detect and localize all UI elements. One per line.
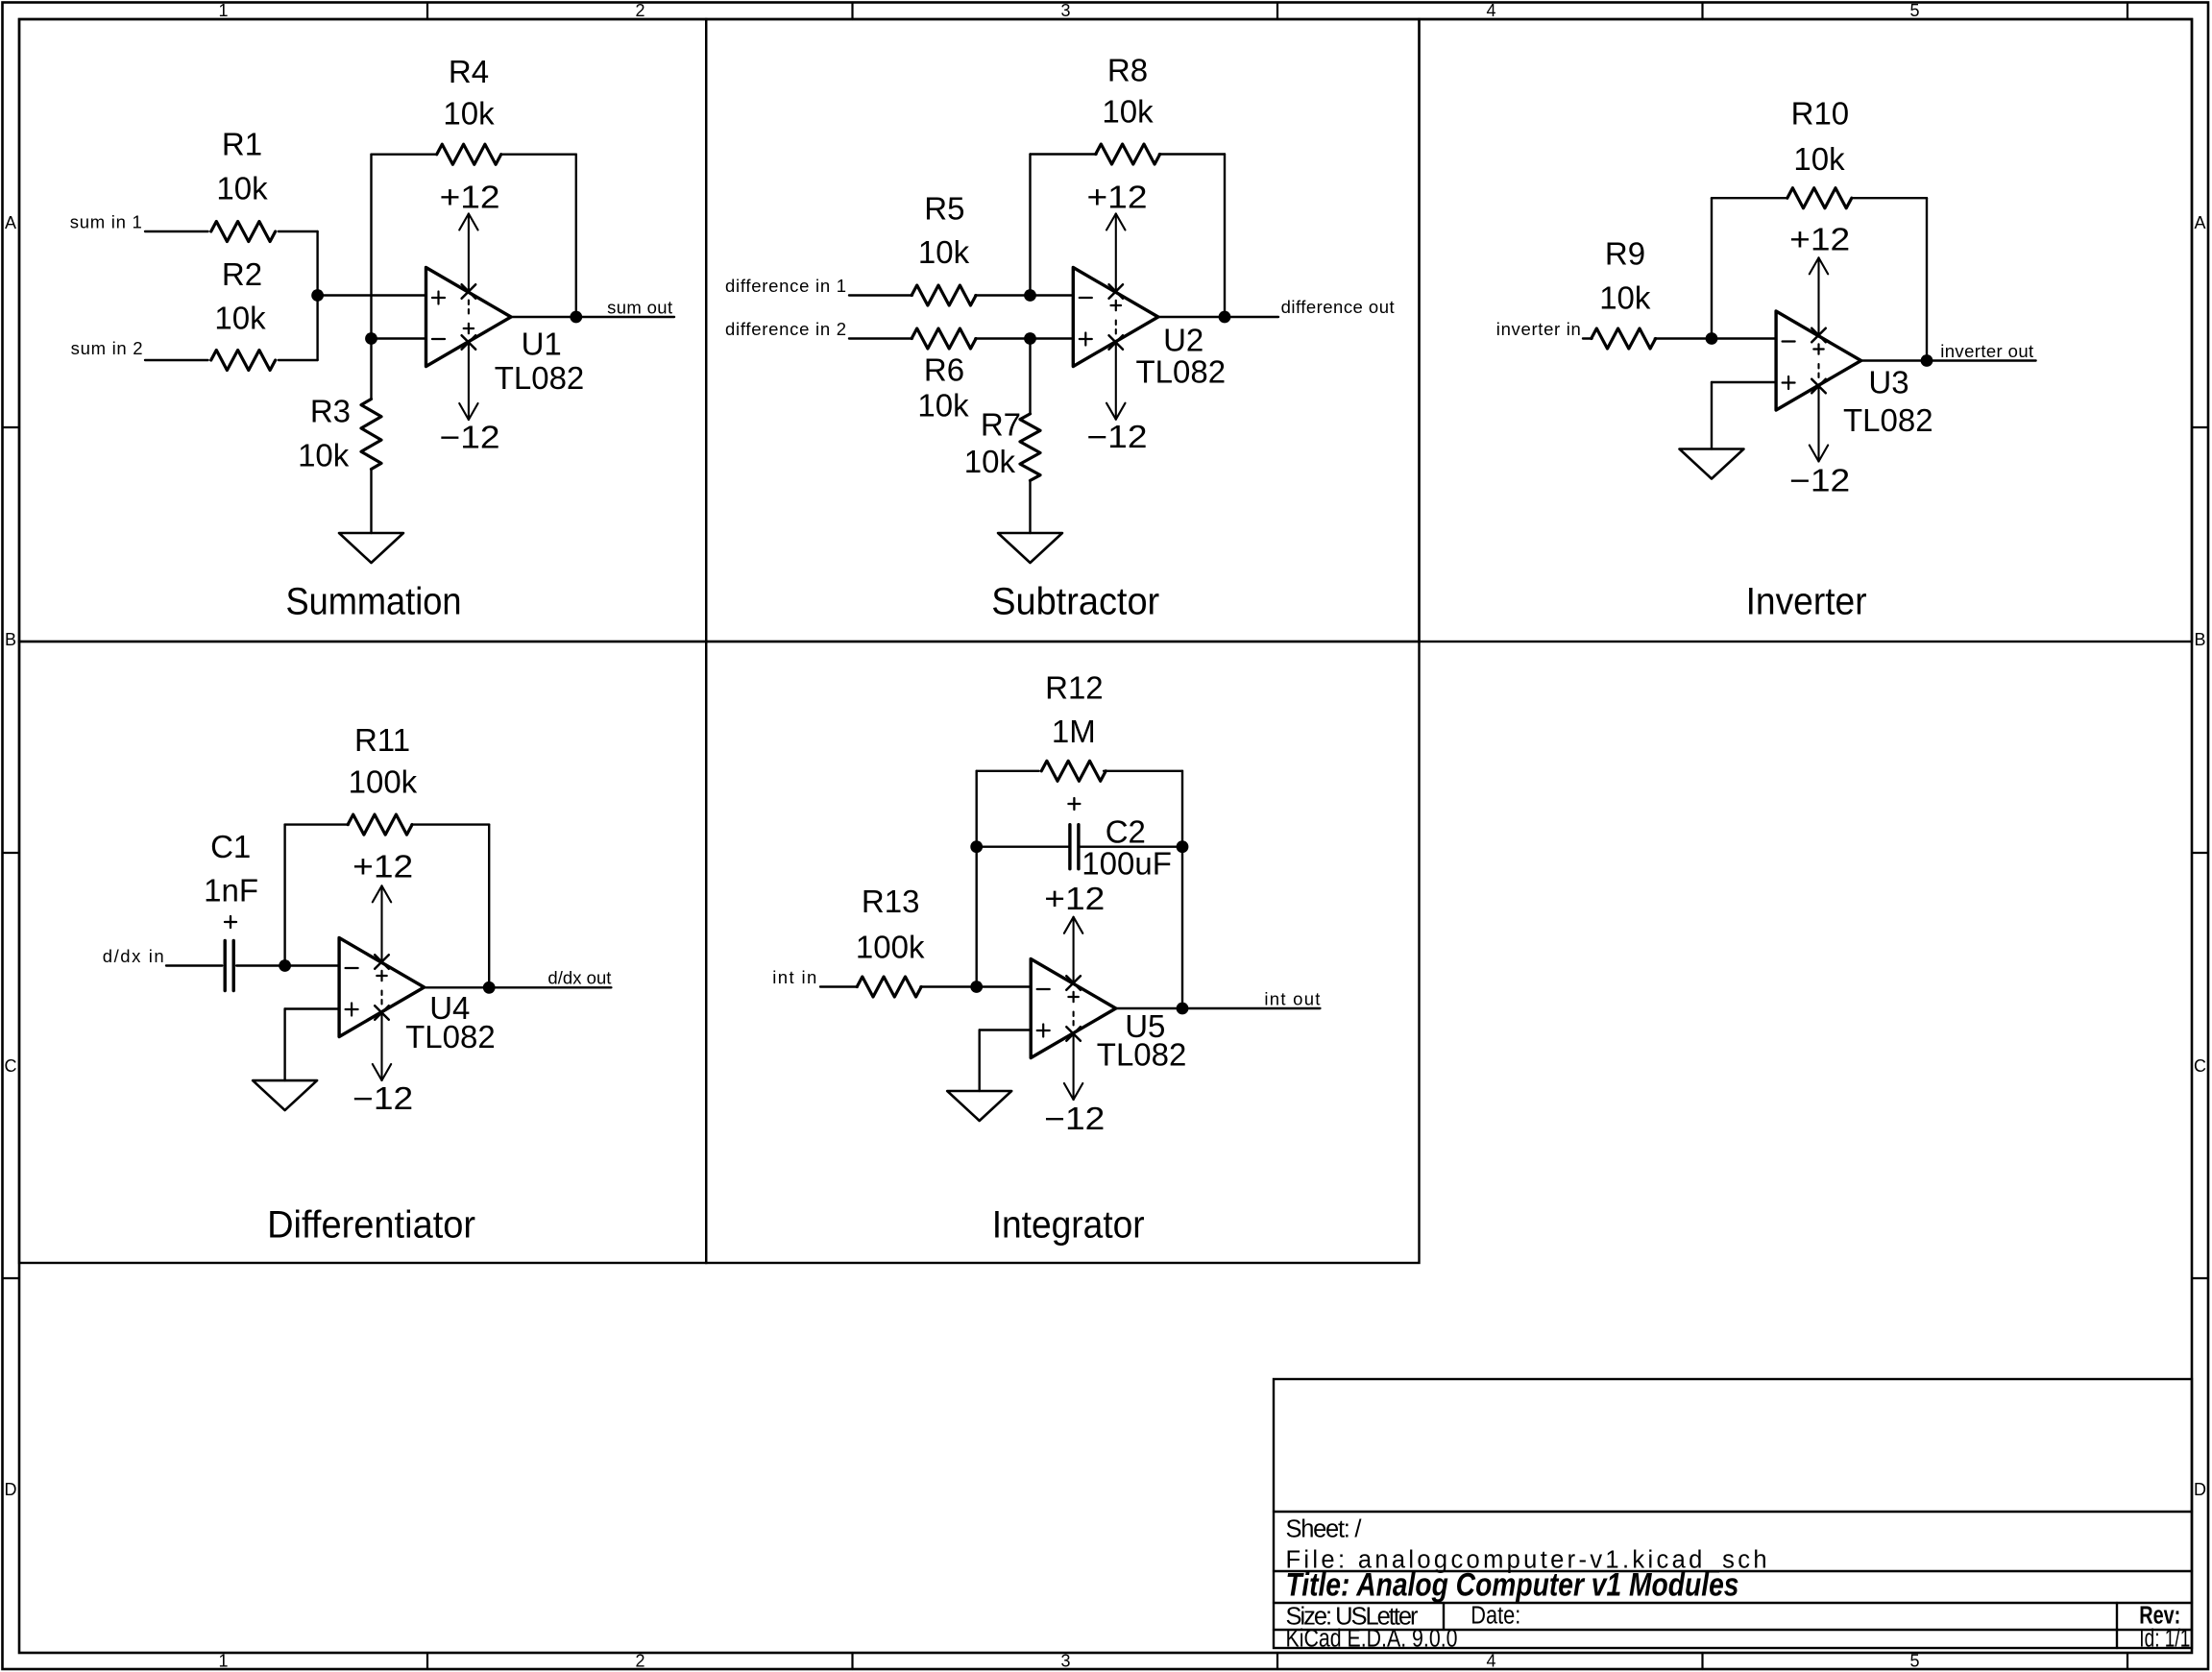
junction node difference in 1 (1024, 289, 1036, 302)
capacitor C2 labels (1068, 803, 1080, 805)
resistor R9 (1592, 328, 1656, 349)
svg-text:10k: 10k (964, 444, 1016, 479)
power symbol -12 U2 (1106, 403, 1116, 420)
wire U1 output (511, 316, 674, 318)
svg-text:difference in 1: difference in 1 (725, 276, 846, 296)
svg-text:100uF: 100uF (1082, 845, 1172, 881)
junction node inverter input (1706, 332, 1718, 345)
power symbol +12 U1 (459, 214, 469, 230)
svg-text:R13: R13 (862, 884, 920, 919)
svg-text:+12: +12 (1789, 222, 1850, 257)
power symbol +12 U4 (373, 885, 382, 902)
wire int in to R13 (820, 985, 858, 987)
wire R4 right vertical (575, 155, 577, 317)
resistor R12 feedback (976, 771, 978, 987)
svg-text:U2: U2 (1163, 322, 1203, 357)
ground symbol GND3 (1680, 449, 1744, 479)
svg-text:TL082: TL082 (1136, 354, 1227, 390)
svg-text:Id: 1/1: Id: 1/1 (2139, 1626, 2190, 1653)
wire to U1 + input (318, 294, 426, 296)
svg-text:inverter out: inverter out (1940, 341, 2033, 361)
svg-text:Sheet: /: Sheet: / (1286, 1516, 1363, 1543)
resistor R2 (211, 351, 276, 371)
svg-text:TL082: TL082 (1097, 1036, 1187, 1072)
frame row tick marks (3, 426, 20, 428)
svg-text:4: 4 (1486, 1652, 1495, 1671)
svg-text:C: C (5, 1056, 17, 1076)
junction node d/dx out (483, 981, 496, 994)
frame column tick marks (426, 3, 428, 20)
wire vertical joining R1 and R2 (316, 231, 318, 360)
wire R2 to corner (279, 359, 318, 361)
power symbol -12 U5 (1064, 1083, 1074, 1100)
Summation module box (19, 19, 706, 642)
svg-text:3: 3 (1060, 1, 1070, 20)
svg-text:10k: 10k (298, 438, 350, 473)
svg-text:U1: U1 (522, 326, 562, 361)
svg-text:10k: 10k (918, 234, 970, 270)
junction node inverting input (365, 332, 377, 345)
resistor R10 feedback (1711, 198, 1713, 338)
svg-text:A: A (2194, 213, 2205, 232)
svg-text:1M: 1M (1052, 714, 1096, 749)
wire U5 output (1116, 1007, 1321, 1009)
op-amp U4 (339, 938, 425, 1037)
svg-text:R11: R11 (354, 722, 410, 758)
resistor R13 (857, 977, 921, 997)
resistor R11 feedback (283, 825, 285, 966)
power symbol -12 U3 (1810, 446, 1819, 462)
svg-text:+12: +12 (352, 849, 413, 884)
junction node integrator input (970, 981, 983, 993)
svg-text:R12: R12 (1045, 670, 1104, 706)
resistor R7 (1029, 339, 1031, 415)
svg-text:TL082: TL082 (405, 1019, 496, 1054)
svg-text:difference out: difference out (1281, 297, 1395, 317)
svg-text:Differentiator: Differentiator (267, 1203, 475, 1246)
svg-text:int out: int out (1264, 988, 1320, 1008)
svg-text:1nF: 1nF (204, 872, 258, 908)
svg-text:5: 5 (1909, 1, 1919, 20)
wire C1 to U4 - input (236, 964, 339, 966)
junction node int out (1177, 1003, 1189, 1015)
svg-text:Summation: Summation (286, 581, 462, 623)
wire sum in 2 to R2 (145, 359, 208, 361)
junction node inverter out (1921, 354, 1933, 367)
wire R13 to U5 - input (920, 985, 1031, 987)
svg-text:A: A (5, 213, 16, 232)
svg-text:R1: R1 (222, 126, 262, 161)
svg-text:sum out: sum out (607, 297, 672, 317)
svg-text:R4: R4 (449, 54, 489, 89)
wire R8 right vertical (1224, 155, 1226, 318)
svg-text:−12: −12 (1044, 1101, 1105, 1136)
resistor R8 feedback (1029, 155, 1031, 296)
resistor R5 (912, 285, 976, 305)
svg-text:Integrator: Integrator (992, 1203, 1145, 1246)
wire U5 + input to ground (980, 1029, 1031, 1030)
power symbol +12 U2 (1106, 214, 1116, 230)
svg-text:sum in 1: sum in 1 (70, 211, 142, 231)
power symbol -12 U1 (459, 403, 469, 420)
svg-text:C: C (2194, 1056, 2206, 1076)
svg-text:Subtractor: Subtractor (991, 581, 1159, 623)
wire inverter in to R9 (1583, 337, 1592, 339)
op-amp U2 (1073, 268, 1158, 367)
wire R12 right vertical (1181, 771, 1183, 1008)
svg-text:+12: +12 (1087, 180, 1148, 215)
Subtractor module box (706, 19, 1419, 642)
svg-text:C1: C1 (210, 829, 251, 864)
wire R4 left vertical (370, 155, 372, 339)
junction node C2 left (970, 840, 983, 853)
title block frame (1274, 1379, 2192, 1648)
svg-text:10k: 10k (1793, 141, 1845, 177)
svg-text:+12: +12 (440, 180, 500, 215)
svg-text:1: 1 (218, 1, 228, 20)
Inverter module box (1420, 19, 2193, 642)
wire difference in 2 to R6 (849, 337, 912, 339)
svg-text:−12: −12 (352, 1080, 413, 1116)
svg-text:difference in 2: difference in 2 (725, 319, 846, 339)
junction node C2 right (1177, 840, 1189, 853)
svg-text:100k: 100k (856, 929, 925, 964)
power symbol -12 U4 (373, 1064, 382, 1080)
ground symbol GND1 (339, 533, 403, 563)
resistor R6 (912, 328, 976, 349)
junction node difference out (1219, 311, 1231, 324)
svg-text:C2: C2 (1106, 813, 1146, 849)
power symbol +12 U5 (1064, 917, 1074, 933)
svg-text:d/dx out: d/dx out (547, 968, 611, 988)
svg-text:+12: +12 (1044, 881, 1105, 916)
wire R11 right vertical (488, 825, 490, 988)
ground symbol GND2 (998, 533, 1062, 563)
svg-text:d/dx in: d/dx in (103, 946, 164, 966)
svg-text:2: 2 (635, 1652, 644, 1671)
svg-text:R9: R9 (1605, 235, 1645, 271)
svg-text:B: B (5, 630, 16, 649)
svg-text:10k: 10k (917, 387, 969, 423)
svg-text:R5: R5 (924, 190, 964, 226)
svg-text:sum in 2: sum in 2 (71, 338, 143, 358)
resistor R1 (211, 222, 276, 242)
resistor R3 (370, 339, 372, 400)
junction node differentiator input (279, 959, 291, 972)
Integrator module box (706, 642, 1419, 1263)
op-amp U5 (1031, 959, 1116, 1058)
svg-text:10k: 10k (214, 301, 266, 336)
wire U4 + input to ground (285, 1007, 340, 1009)
op-amp U3 (1776, 311, 1861, 410)
ground symbol GND4 (253, 1080, 317, 1110)
wire R1 to corner (279, 230, 318, 232)
wire sum in 1 to R1 (145, 230, 208, 232)
wire U3 output (1861, 359, 2036, 361)
svg-text:D: D (5, 1480, 17, 1499)
ground symbol GND5 (947, 1091, 1011, 1121)
svg-text:−12: −12 (440, 420, 500, 455)
wire R6 to U2 + input (975, 337, 1073, 339)
svg-text:R2: R2 (222, 256, 262, 292)
wire d/dx in to C1 (166, 964, 222, 966)
junction node sum (311, 289, 324, 302)
svg-text:3: 3 (1060, 1652, 1070, 1671)
svg-text:R6: R6 (924, 352, 964, 388)
svg-text:10k: 10k (1102, 94, 1154, 130)
svg-text:Inverter: Inverter (1746, 581, 1867, 623)
svg-text:B: B (2194, 630, 2205, 649)
capacitor C2 branch (977, 846, 1070, 848)
wire to U1 - input (372, 337, 426, 339)
wire R5 to U2 - input (975, 294, 1073, 296)
op-amp U1 (426, 268, 512, 367)
svg-text:−12: −12 (1087, 419, 1148, 454)
wire U2 output (1158, 316, 1278, 318)
Differentiator module box (19, 642, 706, 1263)
svg-text:Title: Analog Computer v1 Modu: Title: Analog Computer v1 Modules (1286, 1567, 1739, 1604)
svg-text:10k: 10k (216, 171, 268, 206)
wire R10 right vertical (1926, 198, 1928, 360)
svg-text:inverter in: inverter in (1496, 319, 1581, 339)
svg-text:TL082: TL082 (495, 360, 585, 396)
svg-text:10k: 10k (1599, 279, 1651, 315)
junction node sum out (570, 311, 582, 324)
svg-text:Date:: Date: (1471, 1603, 1520, 1630)
wire U4 output (425, 986, 612, 988)
wire U3 + input to ground (1712, 381, 1776, 383)
svg-text:R3: R3 (310, 394, 351, 429)
svg-text:2: 2 (635, 1, 644, 20)
svg-text:5: 5 (1909, 1652, 1919, 1671)
svg-text:TL082: TL082 (1843, 402, 1933, 438)
svg-text:int in: int in (772, 967, 816, 987)
svg-text:10k: 10k (443, 96, 495, 132)
svg-text:4: 4 (1486, 1, 1495, 20)
svg-text:KiCad E.D.A. 9.0.0: KiCad E.D.A. 9.0.0 (1286, 1626, 1458, 1653)
svg-text:R7: R7 (981, 407, 1021, 443)
resistor R4 feedback (372, 153, 437, 155)
wire R9 to U3 - input (1655, 337, 1776, 339)
capacitor C1 (223, 941, 226, 991)
svg-text:U3: U3 (1868, 365, 1908, 400)
svg-text:R10: R10 (1791, 95, 1850, 131)
power symbol +12 U3 (1810, 257, 1819, 274)
wire difference in 1 to R5 (849, 294, 912, 296)
svg-text:1: 1 (218, 1652, 228, 1671)
svg-text:100k: 100k (349, 764, 418, 800)
svg-text:D: D (2194, 1480, 2206, 1499)
svg-text:R8: R8 (1107, 53, 1148, 88)
svg-text:−12: −12 (1789, 463, 1850, 498)
junction node difference in 2 (1024, 332, 1036, 345)
